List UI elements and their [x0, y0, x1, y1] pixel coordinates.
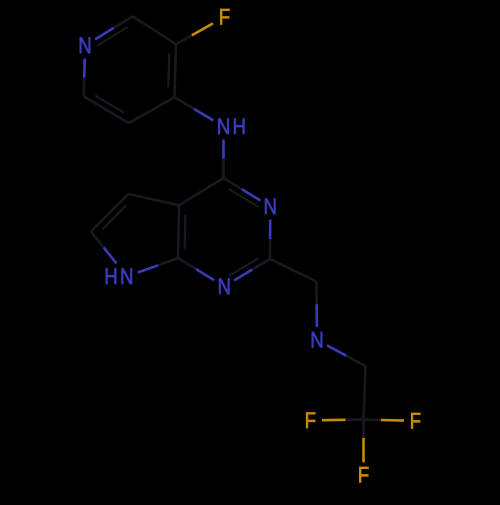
- bond C2-V1: [270, 259, 316, 282]
- svg-text:H: H: [233, 114, 247, 139]
- bond Nr-V2: [327, 345, 346, 355]
- bond CF-FR: [364, 418, 381, 421]
- bond C3p-C4p: [175, 44, 177, 97]
- svg-text:N: N: [217, 114, 231, 139]
- bond Nam-C4: [222, 140, 225, 159]
- bond C5p-C6p: [84, 96, 129, 123]
- svg-text:H: H: [104, 264, 118, 289]
- svg-text:F: F: [219, 5, 231, 30]
- svg-text:F: F: [410, 408, 422, 433]
- bond C6r-N7: [91, 232, 104, 248]
- bond C5r-C6r: [91, 194, 128, 232]
- bond N7-C7a: [138, 265, 158, 272]
- bond CF-FB: [362, 420, 365, 438]
- bond N1-C7a: [196, 269, 214, 280]
- svg-text:N: N: [78, 33, 92, 58]
- svg-text:N: N: [120, 264, 134, 289]
- svg-text:F: F: [305, 408, 317, 433]
- svg-text:F: F: [358, 462, 370, 487]
- bond CF-FL: [346, 418, 364, 421]
- svg-text:N: N: [264, 194, 278, 219]
- bond C7a-C4a: [178, 205, 179, 258]
- bond C6p-N1p: [82, 78, 85, 97]
- bond C4p-C5p: [129, 97, 175, 123]
- bond V1-Nr: [315, 282, 318, 305]
- bond C2p-C3p: [133, 16, 176, 44]
- bond C2-N1: [252, 259, 270, 270]
- bond C4a-C4: [179, 178, 224, 205]
- bond N1p-C2p: [95, 28, 114, 40]
- bond C4a-C5r: [128, 194, 179, 205]
- bond V2-CF: [364, 366, 366, 420]
- bond C4p-Nam: [175, 97, 195, 109]
- bond C3p-Ftop: [176, 35, 192, 44]
- bond C4-N3: [224, 178, 242, 189]
- svg-text:N: N: [217, 274, 231, 299]
- bond N3-C2: [269, 220, 272, 240]
- svg-text:N: N: [310, 328, 324, 353]
